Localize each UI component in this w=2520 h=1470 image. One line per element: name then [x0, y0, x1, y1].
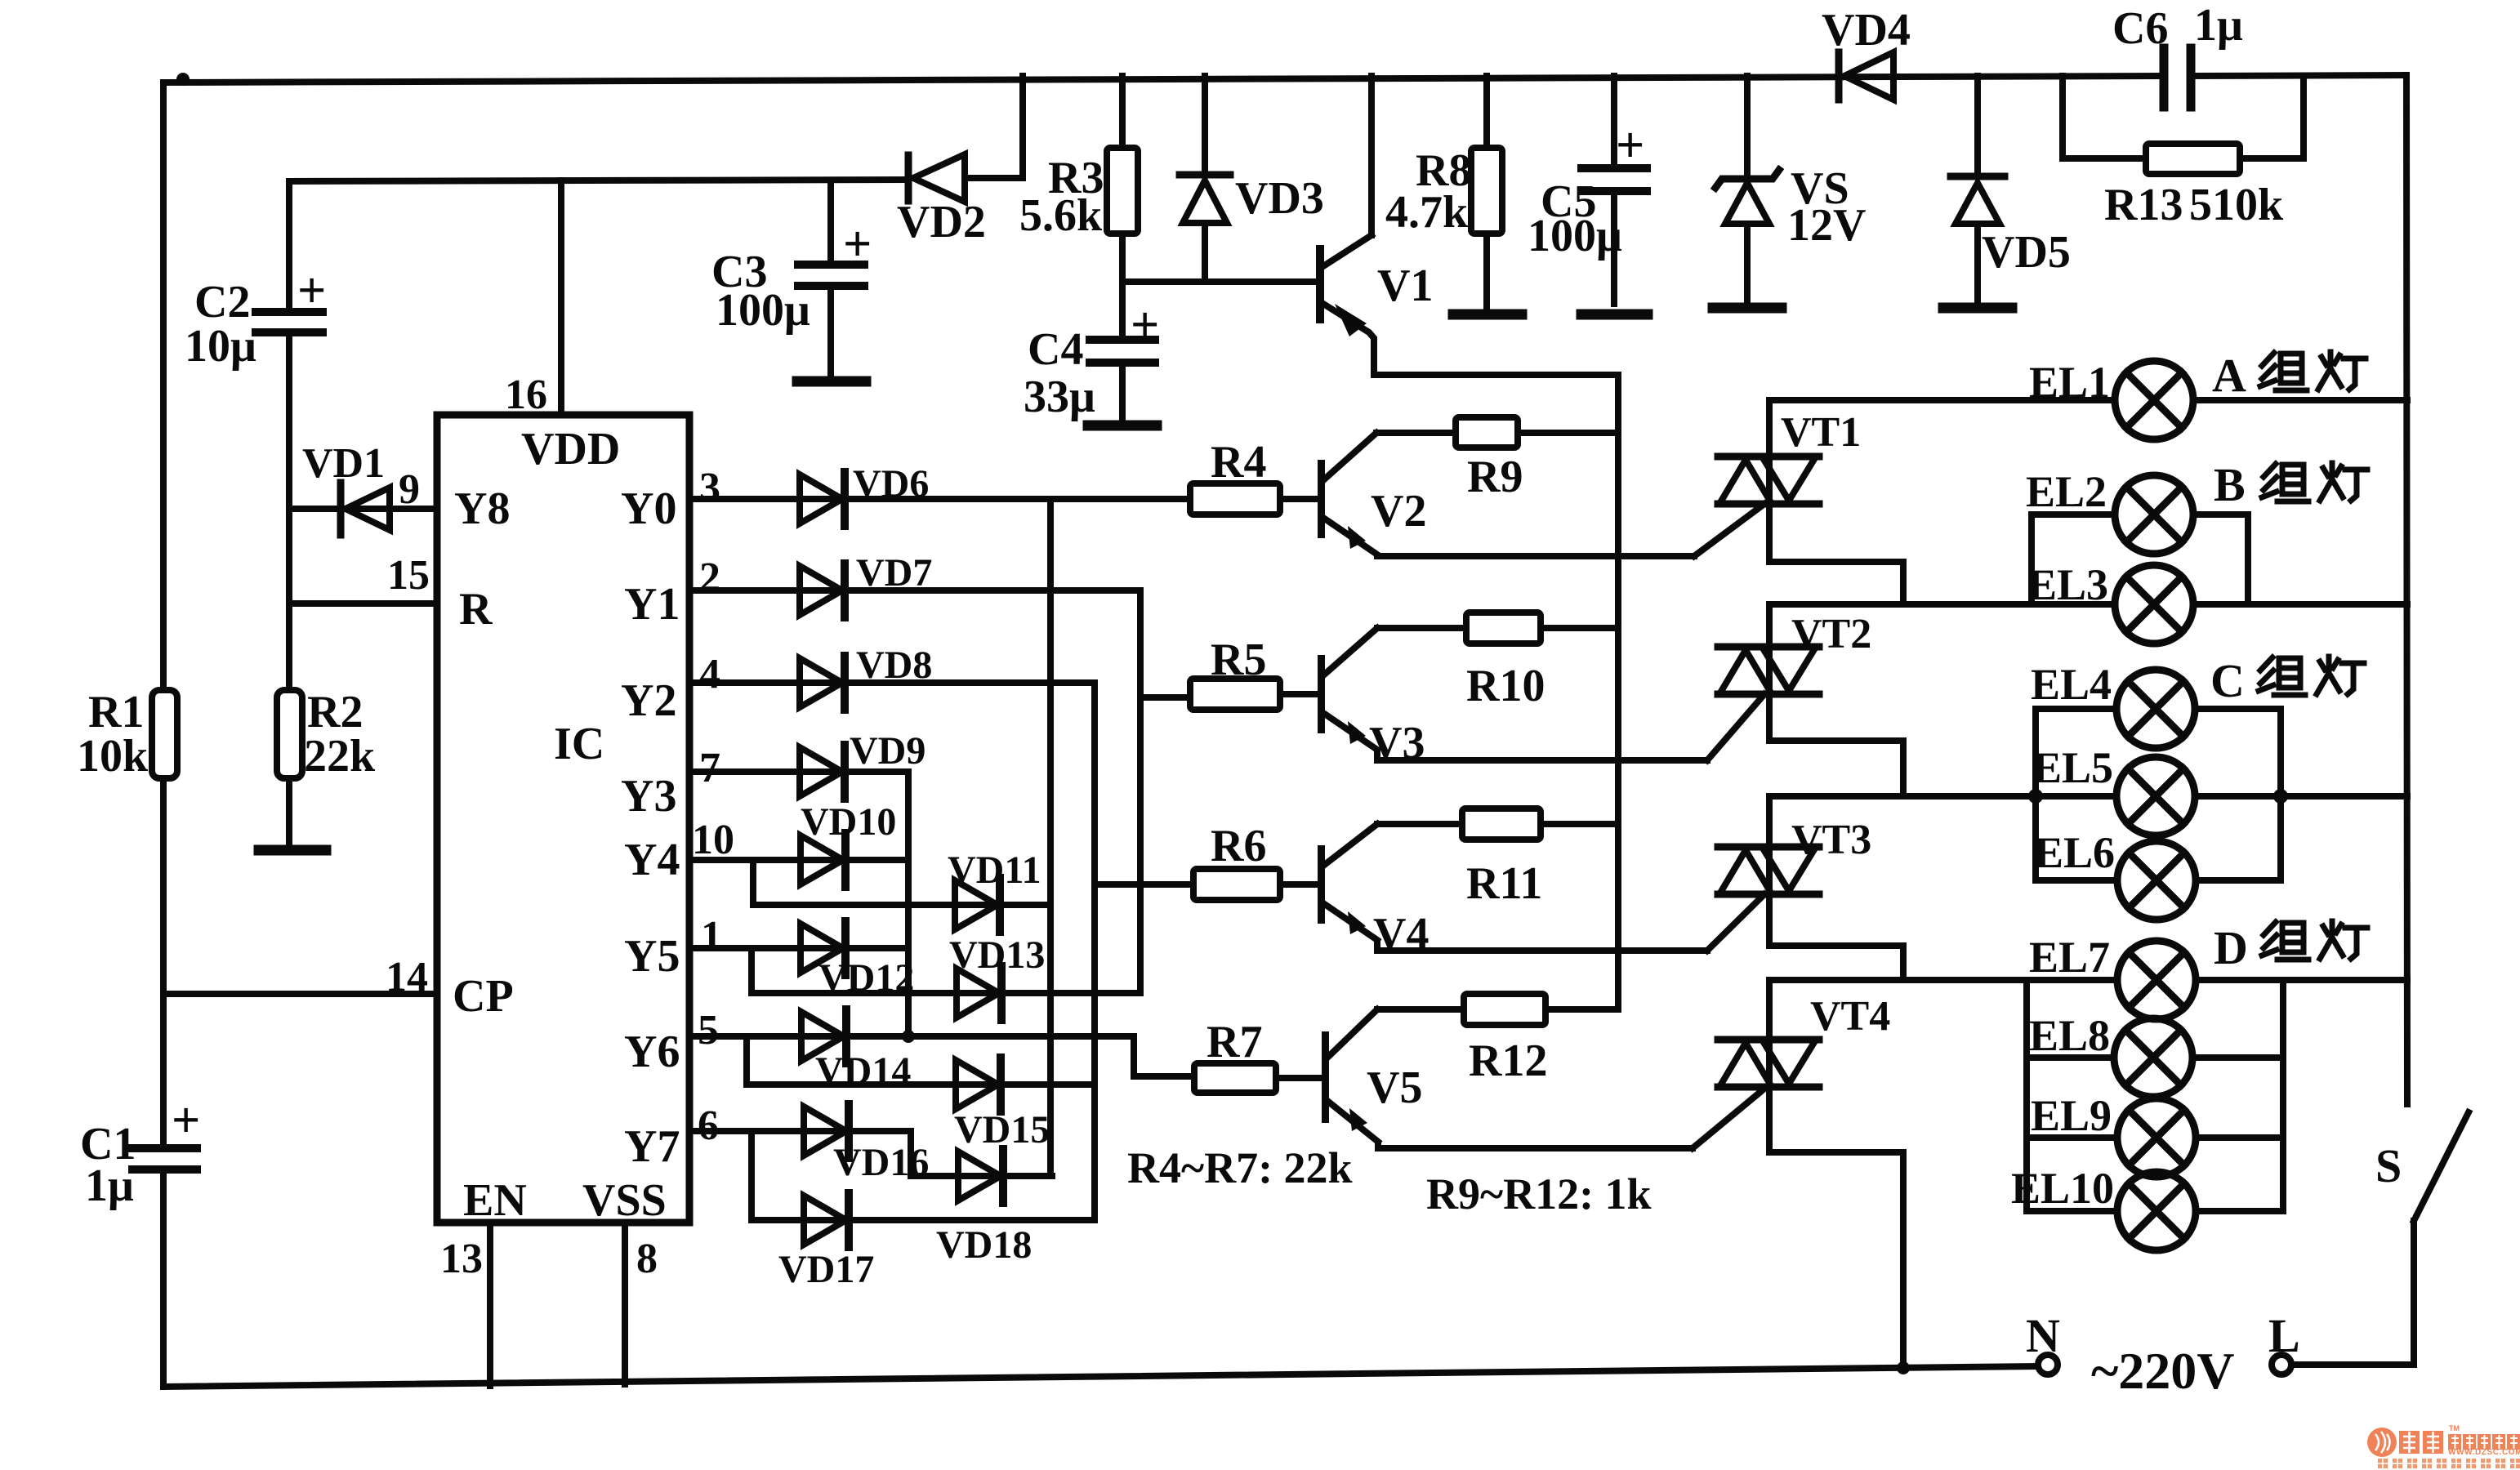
- svg-text:R9~R12: 1k: R9~R12: 1k: [1426, 1169, 1652, 1218]
- wire V1 base line: [1122, 278, 1317, 285]
- wire top rail right of C6: [2193, 75, 2406, 76]
- svg-text:VD3: VD3: [1235, 173, 1324, 224]
- svg-text:EL9: EL9: [2031, 1091, 2112, 1140]
- diode VD11: [955, 878, 1000, 932]
- svg-text:VD5: VD5: [1982, 227, 2071, 278]
- wire EL6 branch right: [2196, 877, 2281, 884]
- diode VD5: [1951, 173, 2005, 180]
- svg-text:IC: IC: [554, 719, 604, 769]
- wire CP line pin14: [163, 991, 437, 997]
- svg-text:Y7: Y7: [624, 1121, 680, 1172]
- svg-text:Y8: Y8: [454, 483, 510, 534]
- node dot C loop right: [2273, 789, 2288, 804]
- wire VT3 MT2 to C line: [1766, 796, 1773, 844]
- wire R8 top lead: [1483, 76, 1490, 148]
- wire EL4 branch left: [2036, 706, 2116, 712]
- transistor V3: [1318, 655, 1325, 733]
- ground below VD5: [1943, 303, 2012, 314]
- svg-text:R2: R2: [307, 687, 363, 737]
- svg-text:R1: R1: [88, 687, 144, 737]
- svg-text:EL6: EL6: [2034, 828, 2115, 877]
- svg-text:R9: R9: [1467, 452, 1523, 502]
- svg-text:12V: 12V: [1787, 200, 1866, 251]
- svg-text:V5: V5: [1367, 1062, 1422, 1113]
- svg-text:~220V: ~220V: [2091, 1342, 2235, 1400]
- wire V4 collector to R11: [1377, 821, 1462, 827]
- wire VD16 output drop: [908, 1131, 914, 1176]
- wire R5 to V3 base: [1280, 691, 1317, 697]
- svg-text:R6: R6: [1211, 821, 1266, 871]
- svg-text:+: +: [1616, 118, 1644, 173]
- svg-text:VD12: VD12: [818, 956, 914, 1000]
- ground below VS: [1713, 303, 1782, 314]
- wire EL9 branch right: [2196, 1134, 2283, 1141]
- wire switch to L: [2292, 1221, 2414, 1365]
- terminal N: [2038, 1355, 2058, 1374]
- svg-text:100μ: 100μ: [716, 285, 810, 336]
- wire matrix column A net: [1047, 499, 1054, 1176]
- diode VD1: [337, 483, 345, 535]
- wire R8 to ground: [1483, 234, 1490, 309]
- svg-text:V1: V1: [1377, 261, 1433, 311]
- svg-text:VD15: VD15: [954, 1108, 1050, 1151]
- wire R2 to ground: [286, 778, 292, 847]
- resistor R4 (body): [1190, 483, 1280, 514]
- wire Y0 row pin3 to R4: [689, 496, 1190, 502]
- lamp EL4: [2116, 670, 2195, 748]
- label A group lamps (Chinese): [2260, 352, 2366, 390]
- diode VD18: [958, 1149, 1003, 1203]
- wire V1 emitter to bus: [1374, 372, 1618, 375]
- svg-text:Y3: Y3: [621, 771, 676, 822]
- svg-text:VT1: VT1: [1781, 409, 1861, 456]
- resistor R11 (body): [1462, 808, 1541, 840]
- svg-text:R: R: [459, 584, 493, 635]
- diode VD8: [800, 656, 845, 710]
- resistor R5 (body): [1190, 679, 1280, 710]
- svg-text:Y4: Y4: [624, 835, 680, 885]
- wire left border middle: [160, 778, 167, 1143]
- svg-text:VT3: VT3: [1791, 817, 1871, 863]
- svg-text:R10: R10: [1466, 661, 1545, 711]
- resistor R13 (body): [2146, 144, 2240, 174]
- svg-text:R13: R13: [2104, 180, 2183, 230]
- wire matrix column D net: [905, 772, 912, 1036]
- lamp EL2: [2115, 475, 2193, 554]
- svg-text:EL3: EL3: [2027, 560, 2108, 609]
- capacitor C5 plates: [1581, 164, 1647, 172]
- svg-text:VD17: VD17: [778, 1248, 874, 1291]
- wire C5 to ground: [1611, 194, 1617, 304]
- wire Y1 row pin2: [689, 587, 1140, 594]
- svg-text:4.7k: 4.7k: [1385, 187, 1469, 238]
- svg-text:1: 1: [701, 913, 722, 960]
- svg-text:16: 16: [505, 372, 547, 418]
- svg-text:7: 7: [699, 745, 720, 791]
- svg-text:6: 6: [698, 1102, 719, 1149]
- svg-text:VD13: VD13: [949, 933, 1045, 977]
- lamp EL10: [2117, 1172, 2196, 1250]
- wire V4 emitter to VT3 gate: [1377, 942, 1707, 951]
- terminal L: [2272, 1355, 2291, 1374]
- wire Y5 row pin1: [689, 945, 908, 951]
- svg-text:510k: 510k: [2189, 180, 2284, 230]
- wire R7 to V5 base: [1276, 1075, 1321, 1081]
- svg-text:V4: V4: [1373, 909, 1429, 960]
- diode VD2: [905, 155, 912, 201]
- wire R10 to bus: [1541, 625, 1618, 631]
- svg-text:D: D: [2214, 921, 2248, 974]
- svg-text:+: +: [1131, 297, 1159, 353]
- svg-text:CP: CP: [453, 971, 514, 1022]
- diode VD13: [957, 966, 1001, 1020]
- wire VT1 MT1 drop: [1769, 507, 1903, 604]
- svg-text:3: 3: [699, 465, 720, 511]
- ground below R2: [259, 845, 326, 856]
- capacitor C3 lead: [827, 180, 834, 261]
- ground below C3: [797, 376, 866, 387]
- wire C4 to ground: [1119, 366, 1126, 421]
- svg-text:R7: R7: [1206, 1017, 1262, 1067]
- diode VD15: [956, 1058, 1001, 1111]
- wire V5 collector to R12: [1377, 1006, 1464, 1013]
- watermark slogan characters: [2378, 1459, 2520, 1468]
- wire EL4 branch right: [2195, 706, 2281, 712]
- svg-text:100μ: 100μ: [1528, 211, 1622, 261]
- wire Y7 row pin6: [689, 1128, 911, 1134]
- svg-text:C4: C4: [1028, 324, 1083, 375]
- wire D loop left vertical: [2023, 980, 2030, 1211]
- wire V2 emitter to VT1 gate: [1377, 553, 1694, 559]
- svg-text:C6: C6: [2112, 3, 2168, 54]
- diode VD5 lead: [1974, 76, 1981, 173]
- ground below C5: [1581, 310, 1648, 320]
- wire Y4 row pin10: [689, 857, 908, 863]
- wire B loop left vertical: [2028, 514, 2035, 604]
- switch S blade: [2414, 1112, 2469, 1221]
- wire EL9 branch left: [2027, 1134, 2117, 1141]
- svg-text:+: +: [297, 263, 326, 318]
- wire VT4 MT2 to D line: [1766, 980, 1773, 1036]
- svg-text:EL10: EL10: [2011, 1164, 2114, 1213]
- resistor R6 (body): [1193, 869, 1280, 900]
- capacitor C6 plates: [2160, 48, 2169, 107]
- svg-text:EN: EN: [463, 1175, 527, 1226]
- wire left border lower: [160, 1174, 167, 1387]
- wire IC pin13 to bottom: [487, 1223, 493, 1386]
- svg-text:14: 14: [386, 954, 428, 1000]
- wire VT2 MT1 drop: [1769, 697, 1903, 796]
- svg-text:9: 9: [399, 466, 420, 513]
- wire EL10 branch right: [2196, 1208, 2283, 1214]
- diode VD6: [800, 472, 845, 526]
- diode VD4 (inline top rail): [1835, 52, 1843, 100]
- svg-text:R11: R11: [1466, 858, 1542, 909]
- diode VD3 lead top: [1202, 76, 1208, 173]
- wire EL8 branch right: [2192, 1054, 2283, 1061]
- triac VT1: [1718, 453, 1819, 507]
- wire matrix column B net: [1137, 590, 1144, 993]
- triac VT2: [1718, 644, 1819, 697]
- svg-text:EL2: EL2: [2026, 467, 2107, 516]
- label B group lamps (Chinese): [2262, 463, 2367, 501]
- svg-text:TM: TM: [2449, 1424, 2460, 1432]
- svg-text:15: 15: [387, 552, 430, 599]
- capacitor C3 plates: [798, 261, 864, 269]
- lamp EL7: [2117, 941, 2196, 1019]
- svg-text:+: +: [843, 216, 872, 272]
- diode VD7: [800, 563, 845, 617]
- svg-text:EL7: EL7: [2029, 933, 2110, 982]
- capacitor C4 lead: [1119, 282, 1126, 336]
- wire A group line right: [2193, 397, 2407, 403]
- wire VT3 MT1 drop: [1769, 898, 1903, 980]
- svg-text:2: 2: [699, 555, 720, 601]
- svg-text:VD7: VD7: [856, 551, 932, 595]
- svg-text:VD6: VD6: [853, 462, 929, 506]
- wire R6 feed from column C: [1095, 881, 1193, 888]
- wire R pin15 line: [289, 600, 437, 607]
- svg-text:Y5: Y5: [624, 931, 680, 982]
- diode VD14: [801, 1009, 846, 1063]
- svg-text:Y2: Y2: [621, 675, 676, 726]
- svg-text:10μ: 10μ: [185, 321, 256, 372]
- wire C3 to ground: [827, 289, 834, 378]
- svg-text:V2: V2: [1371, 486, 1426, 537]
- wire C group line left: [1769, 793, 2116, 800]
- watermark title characters: [2399, 1431, 2520, 1454]
- wire D group line right: [2196, 977, 2407, 983]
- wire R3 bottom lead: [1119, 234, 1126, 282]
- svg-text:5.6k: 5.6k: [1019, 190, 1103, 241]
- resistor R10 (body): [1466, 612, 1541, 644]
- resistor R1 (body): [152, 690, 177, 778]
- svg-text:VD4: VD4: [1822, 5, 1911, 56]
- capacitor C2 plates: [256, 308, 323, 316]
- svg-text:S: S: [2375, 1139, 2402, 1192]
- label C group lamps (Chinese): [2259, 657, 2364, 695]
- wire R12 to bus corner: [1545, 1006, 1618, 1013]
- capacitor C4 plates: [1090, 336, 1155, 344]
- wire VD18 branch row: [911, 1173, 1052, 1179]
- svg-text:VD8: VD8: [856, 644, 932, 687]
- transistor V2: [1318, 460, 1325, 538]
- svg-text:4: 4: [699, 651, 720, 697]
- svg-text:Y6: Y6: [624, 1027, 680, 1077]
- wire Y6 row pin5: [689, 1033, 1134, 1040]
- wire left border upper: [160, 82, 167, 690]
- diode VD9: [800, 745, 845, 799]
- wire VT1 MT2 to A line: [1766, 400, 1773, 453]
- svg-text:VD16: VD16: [833, 1141, 929, 1184]
- svg-text:Y1: Y1: [624, 579, 680, 630]
- triac VT3: [1718, 844, 1819, 898]
- svg-text:VT2: VT2: [1791, 611, 1871, 657]
- wire R13 loop left: [2063, 76, 2146, 158]
- wire V2 collector to R9: [1376, 430, 1456, 436]
- svg-text:VD2: VD2: [897, 197, 986, 247]
- svg-text:10k: 10k: [77, 731, 149, 782]
- transistor V1: [1316, 245, 1324, 323]
- svg-text:VT4: VT4: [1810, 993, 1890, 1040]
- wire Y2 row pin4: [689, 679, 1095, 686]
- wire pin16 drop: [558, 180, 564, 415]
- wire B group line left: [1769, 601, 2115, 608]
- wire EL8 branch left: [2027, 1054, 2114, 1061]
- capacitor C5 lead top: [1611, 76, 1617, 165]
- svg-text:EL4: EL4: [2031, 660, 2112, 709]
- svg-text:C: C: [2210, 654, 2245, 707]
- wire Y3 row pin7: [689, 768, 908, 775]
- wire matrix column C net: [1091, 683, 1098, 1220]
- svg-text:V3: V3: [1369, 718, 1425, 768]
- svg-text:13: 13: [440, 1236, 483, 1282]
- node dot top-left corner: [176, 73, 190, 86]
- svg-text:C2: C2: [194, 277, 250, 327]
- wire Y5 sub-branch drop: [748, 948, 755, 993]
- svg-text:EL8: EL8: [2029, 1011, 2110, 1060]
- diode VD3: [1180, 171, 1230, 179]
- svg-text:VD9: VD9: [850, 729, 925, 773]
- wire EL2 branch right: [2193, 511, 2248, 518]
- resistor R2 (body): [277, 690, 302, 778]
- wire IC pin8 to bottom: [622, 1223, 628, 1384]
- lamp EL9: [2117, 1098, 2196, 1177]
- wire C group line right: [2195, 793, 2407, 800]
- resistor R12 (body): [1464, 994, 1545, 1025]
- wire VT2 MT2 to B line: [1766, 604, 1773, 644]
- wire top inner line C2 to VD2: [289, 180, 908, 181]
- ground below C4: [1088, 421, 1157, 431]
- zener VS lead: [1744, 76, 1751, 175]
- wire VS to ground: [1744, 225, 1751, 304]
- transistor V4: [1318, 845, 1325, 924]
- wire VD13 branch row: [752, 990, 1140, 996]
- capacitor C1 plates: [132, 1144, 197, 1152]
- wire Y4 sub-branch drop: [750, 860, 756, 905]
- wire Y7 sub-branch drop: [748, 1131, 755, 1220]
- svg-text:VD1: VD1: [302, 440, 385, 487]
- svg-text:Y0: Y0: [621, 483, 676, 534]
- wire A group line left: [1769, 397, 2115, 403]
- wire R9 to bus: [1518, 430, 1618, 436]
- lamp EL1: [2115, 361, 2193, 439]
- wire EL6 branch left: [2036, 877, 2117, 884]
- wire EL2 branch left: [2032, 511, 2115, 518]
- wire +12V bus vertical: [1615, 375, 1621, 1009]
- svg-text:EL1: EL1: [2029, 358, 2110, 407]
- triac VT4: [1718, 1036, 1819, 1090]
- svg-text:8: 8: [636, 1236, 658, 1282]
- zener VS: [1715, 170, 1779, 188]
- wire V3 emitter to VT2 gate: [1377, 751, 1707, 760]
- svg-text:VD11: VD11: [948, 849, 1041, 892]
- svg-text:R12: R12: [1469, 1036, 1547, 1086]
- svg-text:1μ: 1μ: [2194, 0, 2243, 51]
- svg-text:22k: 22k: [304, 731, 376, 782]
- wire R13 loop right: [2240, 76, 2304, 158]
- svg-text:WWW.DZSC.COM: WWW.DZSC.COM: [2448, 1448, 2520, 1457]
- svg-text:VD18: VD18: [936, 1223, 1032, 1267]
- wire VD3 to base line: [1202, 224, 1208, 282]
- wire R7 feed jog from Y6 row: [1134, 1036, 1194, 1076]
- node dot Y6-column junction: [902, 1030, 915, 1043]
- diode VD17: [804, 1193, 849, 1247]
- lamp EL3: [2115, 565, 2193, 644]
- wire D loop right vertical: [2280, 980, 2286, 1211]
- wire VT4 MT1 drop to mains line: [1769, 1092, 1903, 1369]
- resistor R7 (body): [1194, 1063, 1276, 1093]
- wire VD5 to ground: [1974, 225, 1981, 304]
- wire B loop right vertical: [2245, 514, 2251, 604]
- lamp EL6: [2117, 841, 2196, 920]
- wire V5 emitter to VT4 gate: [1378, 1143, 1693, 1148]
- svg-text:1μ: 1μ: [85, 1160, 134, 1211]
- svg-text:VD10: VD10: [801, 800, 896, 844]
- wire Y6 sub-branch drop: [743, 1036, 750, 1085]
- wire D group line left: [1769, 977, 2117, 983]
- label D group lamps (Chinese): [2262, 921, 2367, 960]
- svg-text:VD14: VD14: [815, 1049, 911, 1093]
- wire R4 to V2 base: [1280, 496, 1317, 502]
- svg-text:R4~R7: 22k: R4~R7: 22k: [1127, 1143, 1353, 1192]
- diode VD12: [801, 921, 845, 975]
- watermark logo circle: [2367, 1428, 2397, 1457]
- svg-text:L: L: [2268, 1309, 2300, 1362]
- svg-text:10: 10: [692, 817, 734, 863]
- wire C2 to R2 vertical: [286, 336, 292, 690]
- wire Y8 pin9 line: [289, 506, 437, 512]
- svg-text:+: +: [172, 1093, 200, 1148]
- node dot VT4 drop at mains line: [1897, 1361, 1910, 1374]
- wire C loop left vertical: [2032, 709, 2039, 880]
- ground below R8: [1453, 310, 1522, 320]
- svg-text:EL5: EL5: [2032, 743, 2113, 792]
- wire V3 collector to R10: [1377, 625, 1466, 631]
- wire bottom return line: [163, 1366, 2037, 1387]
- wire R3 top lead: [1119, 76, 1126, 148]
- wire C loop right vertical: [2277, 709, 2284, 880]
- wire VD11 branch row: [753, 902, 1050, 908]
- wire EL10 branch left: [2027, 1208, 2117, 1214]
- wire right border down to switch: [2406, 75, 2407, 1104]
- transistor V5: [1322, 1031, 1329, 1123]
- IC box: [437, 415, 689, 1223]
- wire R6 to V4 base: [1280, 881, 1317, 888]
- resistor R9 (body): [1456, 417, 1518, 448]
- svg-text:VDD: VDD: [521, 424, 620, 474]
- diode VD10: [801, 833, 845, 887]
- svg-text:N: N: [2026, 1309, 2060, 1362]
- svg-text:5: 5: [698, 1007, 719, 1053]
- svg-text:R4: R4: [1211, 437, 1266, 488]
- diode VD16: [804, 1104, 849, 1158]
- wire R5 feed from column B: [1140, 694, 1190, 701]
- wire C2 branch top corner: [286, 181, 292, 309]
- wire top supply rail: [163, 76, 2163, 82]
- svg-text:33μ: 33μ: [1024, 372, 1095, 422]
- svg-text:R5: R5: [1211, 635, 1266, 685]
- svg-text:B: B: [2214, 458, 2246, 511]
- wire VD2 anode riser: [966, 76, 1023, 178]
- resistor R3 (body): [1107, 148, 1138, 234]
- wire VD17 branch row: [752, 1217, 1095, 1223]
- svg-text:VSS: VSS: [582, 1175, 667, 1226]
- node dot C loop left: [2028, 789, 2043, 804]
- resistor R8 (body): [1471, 148, 1502, 234]
- svg-text:A: A: [2212, 349, 2246, 402]
- lamp EL5: [2116, 757, 2195, 835]
